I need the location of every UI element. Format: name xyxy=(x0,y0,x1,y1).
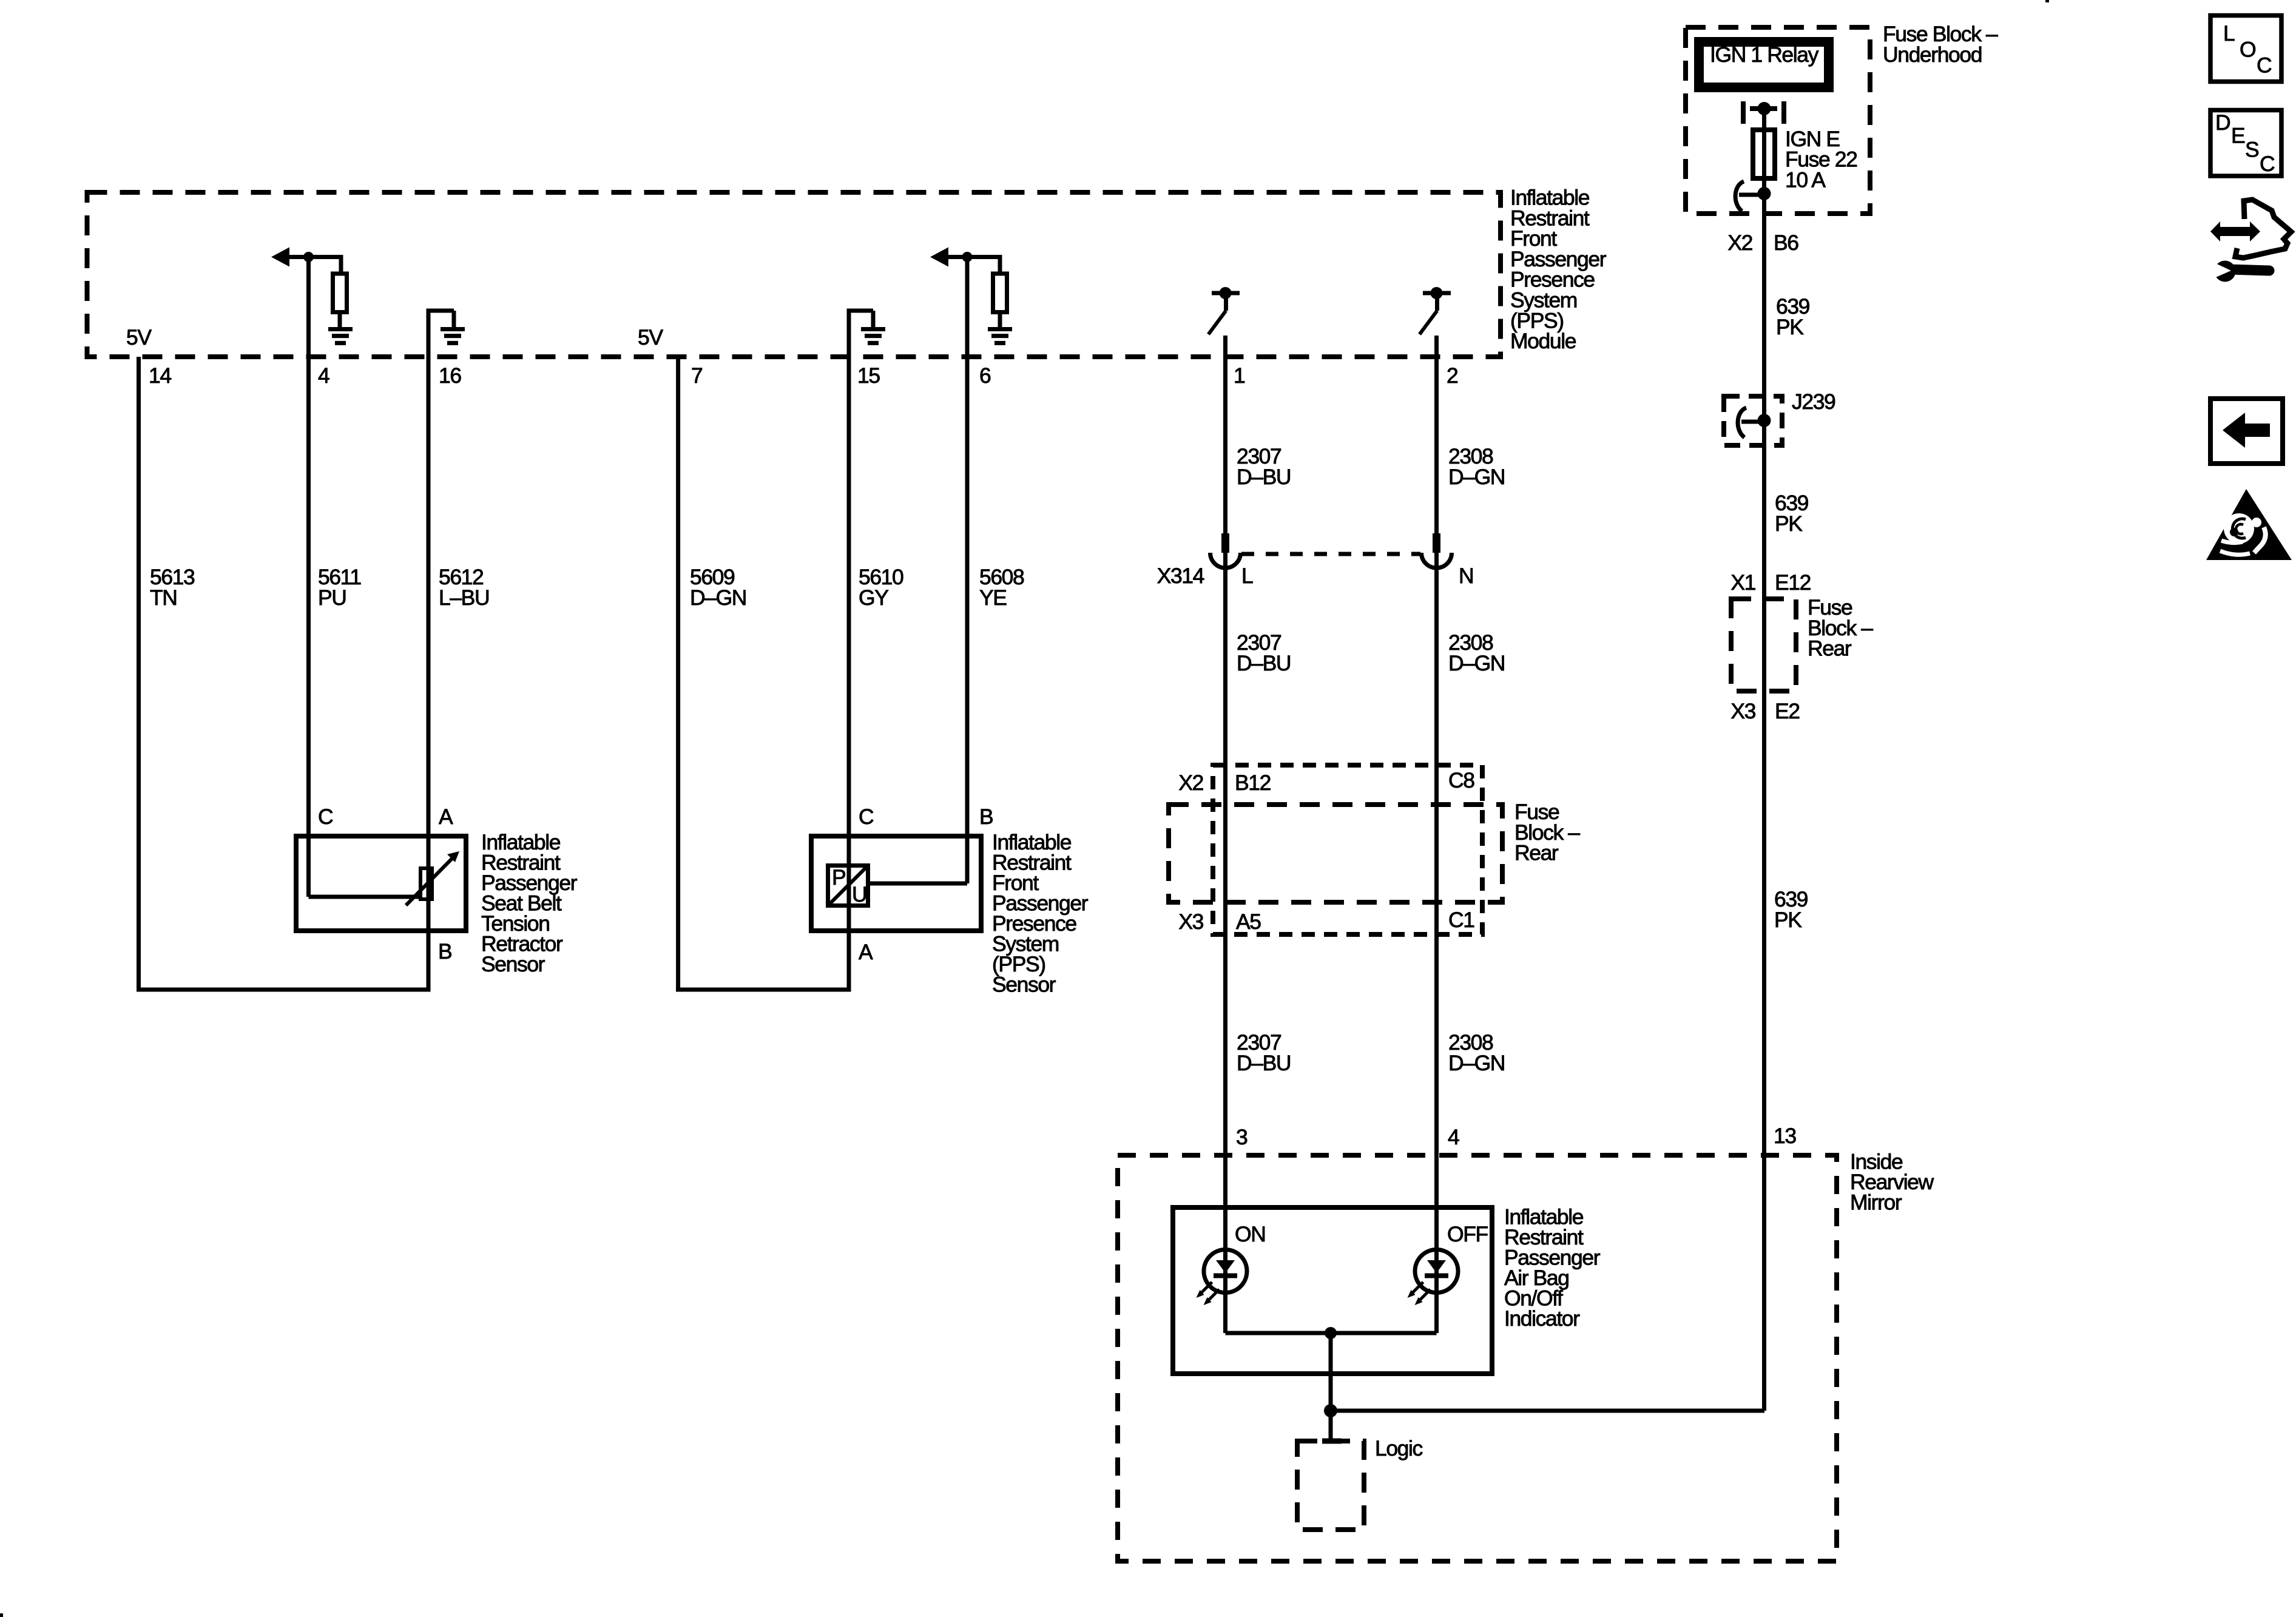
svg-text:2: 2 xyxy=(1447,363,1457,388)
svg-text:13: 13 xyxy=(1774,1124,1796,1148)
svg-text:D–BU: D–BU xyxy=(1237,1051,1291,1075)
svg-text:X3: X3 xyxy=(1730,699,1755,723)
svg-text:E: E xyxy=(2231,124,2245,148)
svg-text:Sensor: Sensor xyxy=(481,952,545,976)
svg-text:ON: ON xyxy=(1235,1222,1265,1246)
svg-text:E2: E2 xyxy=(1775,699,1800,723)
svg-text:Indicator: Indicator xyxy=(1504,1306,1580,1331)
svg-text:15: 15 xyxy=(857,363,880,388)
svg-text:C: C xyxy=(2257,53,2272,78)
svg-text:PK: PK xyxy=(1775,511,1803,536)
svg-text:D–GN: D–GN xyxy=(690,586,746,610)
svg-text:B6: B6 xyxy=(1774,231,1798,255)
svg-text:Sensor: Sensor xyxy=(992,973,1056,997)
svg-text:A: A xyxy=(439,805,453,829)
svg-text:D–GN: D–GN xyxy=(1448,465,1505,489)
svg-text:1: 1 xyxy=(1234,363,1245,388)
svg-text:Rear: Rear xyxy=(1808,636,1852,661)
svg-text:Underhood: Underhood xyxy=(1883,42,1982,67)
svg-text:N: N xyxy=(1459,564,1473,588)
svg-text:TN: TN xyxy=(150,586,177,610)
svg-text:O: O xyxy=(2240,38,2255,62)
svg-text:Module: Module xyxy=(1510,329,1576,353)
svg-text:Logic: Logic xyxy=(1375,1436,1423,1460)
svg-text:7: 7 xyxy=(691,363,702,388)
svg-text:16: 16 xyxy=(439,363,461,388)
svg-text:4: 4 xyxy=(318,363,329,388)
svg-text:X2: X2 xyxy=(1727,231,1752,255)
svg-text:6: 6 xyxy=(979,363,991,388)
svg-text:X3: X3 xyxy=(1178,910,1203,934)
svg-text:X1: X1 xyxy=(1730,570,1755,595)
svg-text:PK: PK xyxy=(1776,315,1804,339)
svg-text:L: L xyxy=(2223,21,2235,46)
svg-text:D–GN: D–GN xyxy=(1448,651,1505,675)
svg-text:D–GN: D–GN xyxy=(1448,1051,1505,1075)
svg-text:C: C xyxy=(318,805,333,829)
svg-text:10 A: 10 A xyxy=(1785,167,1826,192)
svg-text:14: 14 xyxy=(149,363,171,388)
svg-text:Mirror: Mirror xyxy=(1850,1190,1902,1215)
svg-text:5V: 5V xyxy=(126,325,152,349)
svg-text:L–BU: L–BU xyxy=(439,586,489,610)
svg-text:PK: PK xyxy=(1774,908,1802,932)
svg-text:D: D xyxy=(2215,110,2230,135)
svg-text:X2: X2 xyxy=(1178,771,1203,795)
svg-text:C: C xyxy=(859,805,874,829)
svg-text:U: U xyxy=(852,882,866,906)
svg-text:A5: A5 xyxy=(1236,910,1261,934)
svg-text:B: B xyxy=(438,939,451,964)
svg-text:IGN 1 Relay: IGN 1 Relay xyxy=(1710,42,1819,67)
svg-text:L: L xyxy=(1241,564,1253,588)
svg-text:C1: C1 xyxy=(1448,908,1474,932)
svg-text:J239: J239 xyxy=(1792,390,1835,414)
svg-text:A: A xyxy=(859,940,873,964)
svg-text:C8: C8 xyxy=(1448,768,1474,792)
svg-text:PU: PU xyxy=(318,586,346,610)
svg-text:C: C xyxy=(2260,152,2275,176)
svg-text:S: S xyxy=(2245,138,2259,162)
svg-text:B: B xyxy=(979,805,993,829)
svg-text:YE: YE xyxy=(979,586,1007,610)
svg-text:GY: GY xyxy=(859,586,888,610)
svg-text:OFF: OFF xyxy=(1447,1222,1488,1246)
svg-text:4: 4 xyxy=(1448,1125,1459,1149)
svg-text:Rear: Rear xyxy=(1514,841,1559,865)
svg-text:B12: B12 xyxy=(1235,771,1271,795)
svg-text:E12: E12 xyxy=(1775,570,1811,595)
svg-text:X314: X314 xyxy=(1157,564,1204,588)
svg-text:5V: 5V xyxy=(638,325,663,349)
svg-text:D–BU: D–BU xyxy=(1237,465,1291,489)
svg-text:3: 3 xyxy=(1236,1125,1248,1149)
svg-text:D–BU: D–BU xyxy=(1237,651,1291,675)
svg-text:P: P xyxy=(832,865,845,890)
